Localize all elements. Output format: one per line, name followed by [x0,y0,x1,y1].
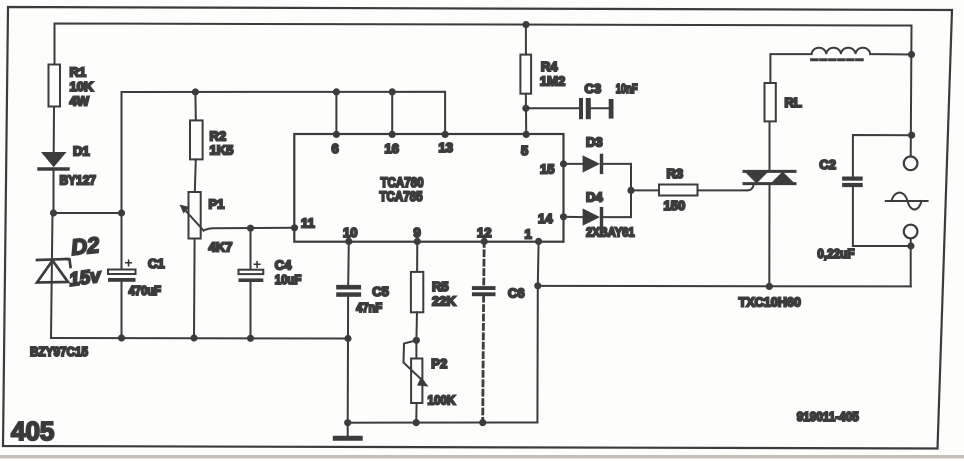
node dot P2 bottom [413,419,420,426]
svg-text:C2: C2 [819,157,836,172]
svg-text:C5: C5 [372,284,389,299]
zener D2 [37,259,71,283]
svg-text:150: 150 [664,198,686,213]
pin 1 [535,238,542,245]
svg-text:TXC10H60: TXC10H60 [739,295,801,310]
pin 5 [525,108,527,134]
wire C1 column upper [121,213,123,270]
pin 16 [391,92,393,134]
capacitor C2 [842,177,863,181]
svg-text:5: 5 [521,143,528,158]
wire mains top rail [55,24,912,65]
wire triac MT1 down [768,184,770,287]
svg-text:14: 14 [538,211,553,226]
svg-text:10nF: 10nF [616,81,638,96]
svg-text:D1: D1 [73,144,90,159]
svg-text:47nF: 47nF [356,300,382,315]
pin 11 [291,224,298,231]
svg-text:TCA785: TCA785 [380,189,423,204]
svg-text:15: 15 [540,162,554,177]
svg-text:R3: R3 [667,166,684,181]
svg-text:4K7: 4K7 [209,240,233,255]
mains sine symbol [886,200,928,202]
wire lower terminal down [910,238,912,286]
svg-text:+: + [253,256,261,272]
node dot C4 wiper wire [247,225,254,232]
svg-text:TCA780: TCA780 [381,175,424,190]
node dot D1 cathode [50,209,57,216]
resistor R2 [190,120,203,159]
wire pin1 column to bottom [536,286,538,423]
wire right column upper [910,26,913,157]
wire triac gate bend [747,185,754,190]
node dot R2 rail [192,88,199,95]
pin 9 [414,238,421,245]
capacitor C6 dashed link top [482,241,485,286]
svg-text:10: 10 [343,225,357,240]
wire node to C1 column [54,212,122,214]
svg-text:P2: P2 [431,356,447,371]
pin 10 [345,238,352,245]
svg-text:16: 16 [385,141,399,156]
capacitor C3 [526,107,579,109]
svg-text:R5: R5 [432,279,449,294]
svg-text:D2: D2 [70,232,101,260]
svg-text:C1: C1 [148,256,165,271]
wire P1 bottom to bus [193,239,196,339]
inductor core dashed [812,58,865,61]
svg-text:6: 6 [332,141,339,156]
node dot C4 bus [247,335,254,342]
svg-text:C4: C4 [275,258,292,273]
node dot C2 top branch [908,132,915,139]
svg-text:BZY97C15: BZY97C15 [30,344,88,359]
pin 12 [481,238,488,245]
node dot C1 bus [118,334,125,341]
wire left column to D2 and bus [51,213,53,338]
diode D3 [564,163,583,165]
svg-text:1M2: 1M2 [540,74,565,89]
node dot C1 top branch [118,209,125,216]
svg-text:+: + [125,255,133,271]
potentiometer P1 [189,192,201,239]
resistor R1 [49,65,61,107]
pin 13 [442,131,449,138]
svg-text:RL: RL [785,95,802,110]
node dot R5 P2 junction [413,337,420,344]
svg-text:0,22uF: 0,22uF [817,246,854,261]
wire C2 bottom link [853,187,911,246]
svg-text:2XBAY61: 2XBAY61 [586,225,635,240]
triac Q1 [769,121,771,171]
node dot pin16 rail [389,88,396,95]
wire C4 to bus [250,282,252,338]
svg-text:15v: 15v [68,266,104,291]
wire D3 D4 join [630,164,632,217]
wire rail to R2 [194,92,196,120]
svg-text:P1: P1 [209,197,225,212]
diode D1 [41,152,67,167]
svg-text:4W: 4W [70,94,90,109]
scan edge bar bottom [0,455,964,458]
svg-text:470uF: 470uF [129,283,162,298]
svg-text:22K: 22K [432,294,456,309]
wire P2 bottom [415,403,417,423]
pin 6 [335,92,337,134]
resistor R4 [525,25,527,55]
capacitor C6 dashed link bottom [481,296,485,422]
wire C5 column to gnd bus [347,339,349,423]
wire C2 top link [853,135,912,177]
node dot gnd column [344,419,351,426]
node dot R4 top rail [522,21,529,28]
svg-text:10K: 10K [70,79,94,94]
node dot triac MT1 [766,283,773,290]
node dot C6 bottom [479,419,486,426]
capacitor C6 [472,286,496,290]
capacitor C5 [347,241,350,285]
wire P1 wiper to pin11 [204,228,295,231]
svg-text:11: 11 [301,216,315,231]
ground [347,423,349,437]
potentiometer P2 [415,340,417,358]
pin 15 [560,160,567,167]
svg-text:R4: R4 [541,59,558,74]
wire R1 to D1 [53,107,55,153]
svg-text:10uF: 10uF [275,272,302,287]
svg-text:1K5: 1K5 [210,143,234,158]
wire bottom gnd run [348,422,538,424]
svg-text:C6: C6 [508,286,525,301]
node dot R4 bottom [522,105,529,112]
svg-text:1: 1 [525,227,532,242]
pin 14 [560,213,567,220]
svg-text:13: 13 [439,140,453,155]
svg-text:919011-405: 919011-405 [797,410,859,424]
svg-text:R1: R1 [70,65,87,80]
inductor L1 [812,48,871,54]
svg-text:D4: D4 [586,190,603,205]
svg-text:BY127: BY127 [60,173,97,188]
capacitor C1 [108,270,136,275]
svg-text:12: 12 [477,225,491,240]
svg-text:9: 9 [414,225,421,240]
resistor R5 [416,241,418,272]
terminal upper [904,157,918,171]
node dot inductor right [908,51,915,58]
wire pin1 down [537,241,540,285]
svg-text:R2: R2 [210,128,227,143]
node dot pin6 rail [333,88,340,95]
svg-text:D3: D3 [586,135,603,150]
wire C1 to bus [121,282,123,338]
wire C4 top [250,228,252,270]
node dot C5 bus [344,335,351,342]
node dot P1 bus [190,334,197,341]
svg-text:405: 405 [11,416,54,446]
node dot pin1 branch [534,282,541,289]
wire +15V rail [122,92,446,213]
wire MT1 node run [538,285,911,288]
wire D1 to node [53,169,55,213]
wire 0V bus left [51,337,348,340]
svg-text:C3: C3 [585,81,602,96]
capacitor C4 [239,270,264,274]
op-amp/IC U1 TCA780/785 [294,134,563,242]
node dot D3 D4 join [627,187,634,194]
node dot C2 bottom branch [907,242,914,249]
resistor R3 [631,189,659,191]
terminal lower [904,225,918,239]
diode D4 [564,216,583,218]
resistor RL [770,54,811,83]
svg-text:100K: 100K [428,393,457,408]
wire R2 to P1 [195,159,196,192]
